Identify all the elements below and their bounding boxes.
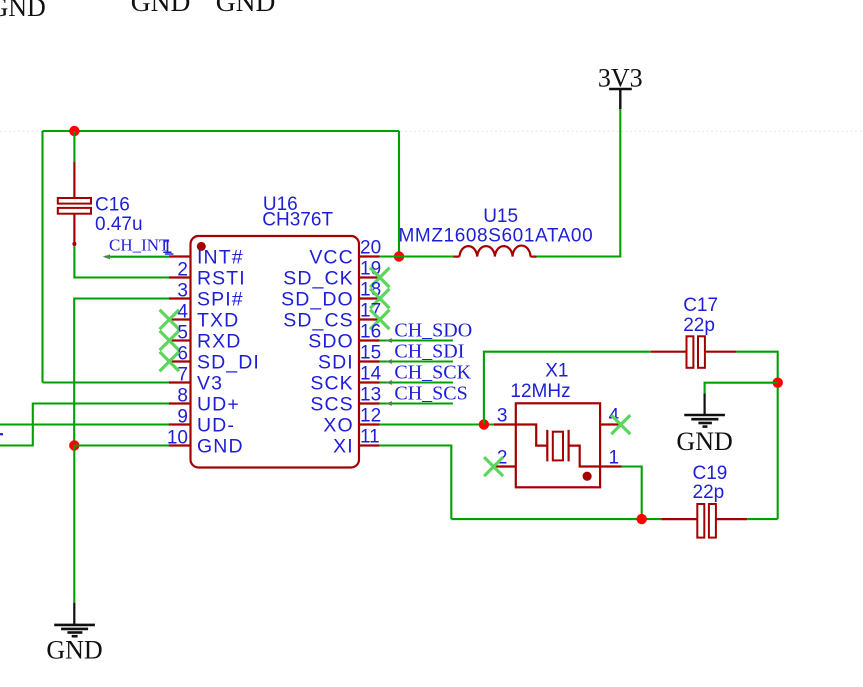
- svg-text:3: 3: [497, 406, 508, 427]
- net label CH_SCK with wire: [380, 361, 472, 385]
- svg-text:SD_CK: SD_CK: [283, 268, 354, 290]
- net label CH_SCS with wire: [380, 382, 468, 406]
- svg-text:10: 10: [167, 428, 188, 449]
- pin 6 SD_DI: [169, 344, 260, 374]
- wire GND pin10 row: [74, 444, 170, 446]
- node junction bottom net: [637, 514, 647, 524]
- wire CH_INT stub: [105, 256, 169, 258]
- wire VCC pin20 to ferrite: [380, 255, 454, 257]
- capacitor C16: [58, 162, 91, 246]
- wire C17 right to right riser: [736, 352, 777, 519]
- svg-text:CH_SCK: CH_SCK: [394, 361, 471, 383]
- pin 11 XI: [333, 427, 380, 458]
- svg-text:X1: X1: [545, 361, 568, 382]
- ground GND middle-right: [676, 393, 732, 456]
- svg-text:C17: C17: [683, 295, 718, 316]
- svg-text:INT#: INT#: [197, 247, 244, 269]
- no-connect X pin 4: [160, 310, 179, 329]
- no-connect X pin 18: [370, 289, 389, 308]
- pin 14 SCK: [310, 364, 381, 395]
- svg-text:C16: C16: [95, 194, 130, 215]
- ground GND bottom-left: [46, 603, 102, 665]
- pin 1 INT#: [169, 247, 244, 269]
- IC U16 CH376T body: [191, 236, 360, 468]
- net label CH_SDO with wire: [380, 319, 473, 343]
- svg-text:TXD: TXD: [197, 310, 239, 332]
- wire down to ground symbol: [73, 446, 75, 603]
- node junction right riser / GND branch: [773, 378, 783, 388]
- svg-text:C19: C19: [693, 463, 728, 484]
- svg-text:SPI#: SPI#: [197, 289, 244, 311]
- node CH_INT dangling arrow: [103, 254, 110, 259]
- svg-text:13: 13: [360, 385, 381, 406]
- crystal pin 2 stub: [494, 465, 516, 467]
- svg-text:CH_SDI: CH_SDI: [394, 340, 464, 362]
- crystal pin 3 stub: [494, 423, 516, 425]
- no-connect X crystal pin 2: [484, 457, 503, 476]
- svg-text:SD_DI: SD_DI: [197, 352, 260, 374]
- wire crystal pin1 down to bottom net: [622, 467, 642, 520]
- node junction VCC pin20: [394, 251, 404, 261]
- no-connect X pin 17: [370, 310, 389, 329]
- blue dash at left edge (cut label): [0, 433, 3, 435]
- svg-text:GND: GND: [46, 635, 102, 664]
- wire C16 bottom lead to pin2 row: [74, 246, 170, 277]
- svg-text:U15: U15: [483, 206, 518, 227]
- svg-text:9: 9: [177, 407, 188, 428]
- pin 15 SDI: [318, 343, 381, 374]
- wire C16 top lead green: [73, 131, 75, 162]
- svg-text:14: 14: [360, 364, 382, 385]
- wire ferrite to 3V3 riser: [537, 109, 621, 256]
- wire C19 right to riser: [747, 518, 778, 520]
- svg-text:XI: XI: [333, 436, 354, 458]
- wire UD+ pin8 branch: [0, 404, 170, 446]
- wire branch up to C17: [484, 352, 651, 425]
- crystal pin 4 stub: [600, 423, 621, 425]
- svg-text:V3: V3: [197, 373, 223, 395]
- svg-text:4: 4: [177, 302, 188, 323]
- svg-text:XO: XO: [323, 415, 353, 437]
- svg-text:16: 16: [360, 322, 381, 343]
- svg-text:RXD: RXD: [197, 331, 241, 353]
- svg-text:CH376T: CH376T: [262, 209, 333, 230]
- svg-text:SCK: SCK: [310, 373, 353, 395]
- svg-text:UD-: UD-: [197, 415, 235, 437]
- capacitor C19: [661, 504, 747, 538]
- svg-text:1: 1: [609, 448, 620, 469]
- pin 16 SDO: [308, 322, 381, 353]
- no-connect X pin 19: [370, 268, 389, 287]
- no-connect X crystal pin 4: [611, 415, 630, 434]
- svg-text:GND: GND: [131, 0, 191, 17]
- pin 1 marker dot U16: [197, 242, 206, 251]
- pin 13 SCS: [310, 385, 381, 416]
- svg-text:SDO: SDO: [308, 331, 354, 353]
- no-connect X pin 5: [160, 331, 179, 350]
- power symbol 3V3: [598, 64, 643, 110]
- wire UD- pin9 to left edge: [0, 423, 170, 425]
- net label CH_SDI with wire: [380, 340, 465, 364]
- svg-text:8: 8: [177, 386, 188, 407]
- svg-text:2: 2: [177, 260, 188, 281]
- svg-text:20: 20: [360, 238, 381, 259]
- node junction at C16 top: [69, 126, 79, 136]
- pin 18 SD_DO: [281, 280, 381, 311]
- capacitor C17: [651, 336, 737, 368]
- net label CH_INT: [109, 235, 174, 258]
- svg-text:CH_SCS: CH_SCS: [394, 382, 467, 404]
- wire bottom net horizontal: [451, 518, 661, 520]
- crystal pin 1 stub: [600, 465, 621, 467]
- svg-text:UD+: UD+: [197, 394, 240, 416]
- wire pin3 SPI# to left then down: [74, 299, 170, 446]
- pin 7 V3: [169, 365, 223, 395]
- svg-text:VCC: VCC: [309, 247, 353, 269]
- wire V3 pin7 row: [43, 381, 171, 383]
- node junction XO / C17 branch: [479, 419, 489, 429]
- wire GND branch: [705, 383, 778, 394]
- svg-text:GND: GND: [216, 0, 276, 17]
- svg-text:CH_INT: CH_INT: [109, 235, 170, 254]
- svg-text:12MHz: 12MHz: [510, 381, 570, 402]
- no-connect X pin 6: [160, 352, 179, 371]
- wire XI pin11 down to bottom net: [380, 446, 452, 520]
- pin 19 SD_CK: [283, 259, 381, 290]
- pin 20 VCC: [309, 238, 381, 269]
- ferrite bead U15: [453, 246, 536, 257]
- svg-text:12: 12: [360, 406, 381, 427]
- svg-text:SD_CS: SD_CS: [283, 310, 354, 332]
- svg-text:CH_SDO: CH_SDO: [394, 319, 472, 341]
- svg-text:22p: 22p: [683, 315, 715, 336]
- svg-text:GND: GND: [676, 427, 732, 456]
- pin 17 SD_CS: [283, 301, 381, 332]
- svg-text:22p: 22p: [693, 482, 725, 503]
- crystal X1 body: [516, 403, 600, 487]
- pin 12 XO: [323, 406, 381, 437]
- svg-text:GND: GND: [0, 0, 46, 22]
- wire XO pin12 to crystal: [380, 423, 494, 425]
- svg-text:RSTI: RSTI: [197, 268, 246, 290]
- svg-text:SCS: SCS: [310, 394, 353, 416]
- wire top horizontal VCC net: [43, 130, 400, 132]
- svg-text:11: 11: [360, 427, 380, 448]
- wire left vertical to V3: [41, 131, 43, 383]
- wire VCC vertical drop: [398, 131, 400, 257]
- pin 8 UD+: [169, 386, 240, 416]
- svg-text:3: 3: [177, 281, 188, 302]
- node junction GND net bottom-left: [69, 440, 79, 450]
- svg-text:MMZ1608S601ATA00: MMZ1608S601ATA00: [399, 225, 594, 246]
- pin 2 RSTI: [169, 260, 246, 290]
- svg-text:1: 1: [162, 237, 173, 258]
- pin 9 UD-: [169, 407, 235, 437]
- svg-text:SDI: SDI: [318, 352, 354, 374]
- svg-text:15: 15: [360, 343, 381, 364]
- svg-text:GND: GND: [197, 436, 244, 458]
- pin 4 TXD: [169, 302, 239, 332]
- svg-text:3V3: 3V3: [598, 64, 643, 93]
- svg-text:SD_DO: SD_DO: [281, 289, 354, 311]
- svg-text:7: 7: [177, 365, 188, 386]
- svg-text:0.47u: 0.47u: [95, 214, 143, 235]
- pin 10 GND: [167, 428, 244, 458]
- pin 5 RXD: [169, 323, 241, 353]
- pin 3 SPI#: [169, 281, 244, 311]
